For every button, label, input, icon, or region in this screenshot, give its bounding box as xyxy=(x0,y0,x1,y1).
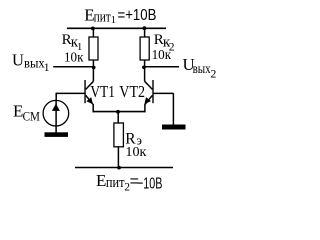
resistor Rk2 xyxy=(140,28,149,67)
svg-text:VT2: VT2 xyxy=(119,82,145,101)
wire Uvyh1 output xyxy=(53,66,93,68)
svg-text:VT1: VT1 xyxy=(90,82,115,101)
resistor Re xyxy=(114,112,124,168)
svg-text:=+10В: =+10В xyxy=(118,7,157,24)
node collector VT2 (junction dot) xyxy=(142,65,146,69)
svg-text:1: 1 xyxy=(111,15,116,26)
wire VT2 base xyxy=(154,92,174,94)
svg-text:10к: 10к xyxy=(152,48,172,63)
ground (Ecm) xyxy=(45,132,69,137)
svg-text:10к: 10к xyxy=(125,145,146,160)
power rail +10V xyxy=(67,27,166,29)
ground (right) xyxy=(162,125,186,130)
junction dot rail-Rk2 xyxy=(143,26,147,30)
junction dot bottom rail xyxy=(117,166,121,170)
wire emitter bus xyxy=(93,111,146,113)
svg-text:E: E xyxy=(96,171,106,190)
junction dot emitter node xyxy=(116,110,120,114)
svg-text:вых: вых xyxy=(193,62,211,77)
junction dot rail-Rk1 xyxy=(91,27,95,31)
svg-text:СМ: СМ xyxy=(23,109,41,124)
svg-text:U: U xyxy=(12,51,24,70)
svg-text:вых: вых xyxy=(24,57,45,72)
svg-text:10к: 10к xyxy=(64,51,84,66)
transistor VT2 xyxy=(144,68,153,113)
wire VT1 base xyxy=(56,92,85,94)
svg-text:−10В: −10В xyxy=(137,175,162,192)
current source Ecm xyxy=(43,100,69,132)
wire Uvyh2 output xyxy=(144,66,179,68)
wire Ecm riser xyxy=(55,93,57,101)
transistor VT1 xyxy=(85,68,93,113)
resistor Rk1 xyxy=(89,28,98,67)
node collector VT1 (junction dot) xyxy=(92,66,96,70)
svg-text:1: 1 xyxy=(44,62,50,74)
svg-text:пит: пит xyxy=(106,175,125,191)
wire right ground riser xyxy=(172,93,174,124)
svg-text:пит: пит xyxy=(94,9,112,25)
power rail -10V xyxy=(75,167,173,169)
svg-text:2: 2 xyxy=(210,67,216,81)
